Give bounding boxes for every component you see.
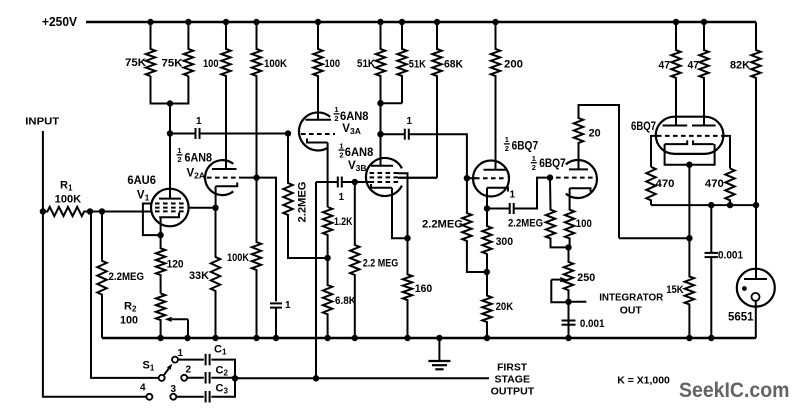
svg-text:6AN8: 6AN8: [345, 147, 374, 159]
resistor 160: [403, 238, 412, 338]
tube U3 half-6BQ7 first envelope: [473, 161, 509, 197]
wire first stage output: [235, 377, 489, 379]
junction dot V3A grid node: [285, 130, 291, 136]
tube V1 cathode: [159, 213, 179, 218]
resistor 6.8K: [323, 258, 332, 338]
junction dot: [708, 202, 714, 208]
junction dot: [404, 235, 410, 241]
label 51K: [357, 58, 375, 70]
resistor 100K (lower): [252, 178, 261, 338]
junction dot ground: [324, 335, 330, 341]
svg-text:1: 1: [407, 116, 413, 127]
svg-text:6BQ7: 6BQ7: [539, 156, 566, 170]
junction dot ground: [484, 335, 490, 341]
svg-text:6BQ7: 6BQ7: [512, 139, 539, 153]
wire V1 grid2 bracket: [143, 204, 161, 236]
label S1: [143, 360, 155, 373]
label 200: [504, 59, 523, 71]
resistor 100K (upper): [252, 22, 261, 178]
svg-text:INPUT: INPUT: [25, 117, 59, 128]
svg-text:2: 2: [334, 114, 338, 123]
junction dot: [727, 202, 733, 208]
wire coupling cap to V3B grid: [342, 181, 370, 183]
label R2: [124, 301, 137, 314]
junction dot: [324, 255, 330, 261]
junction dot ground: [184, 335, 190, 341]
label OUT: [620, 304, 643, 316]
capacitor 1 (integrator coupling): [510, 203, 514, 214]
tube V3B grid row 1: [370, 172, 399, 174]
label STAGE: [495, 374, 531, 386]
label 47: [688, 60, 700, 72]
label 100K (R1): [55, 193, 82, 205]
label 4 (contact): [140, 383, 146, 394]
svg-text:1: 1: [285, 300, 291, 311]
label 100: [325, 58, 341, 70]
capacitor 0.001 (integrator): [562, 321, 576, 325]
label 1/2 fraction (V3A): [334, 105, 340, 123]
junction dot: [223, 19, 229, 25]
node +250V supply rail: [86, 21, 756, 23]
label 3 (contact): [171, 384, 177, 395]
svg-text:2: 2: [532, 163, 536, 172]
resistor 15K: [685, 238, 694, 338]
resistor 100 (6BQ7 cathode): [565, 188, 574, 247]
wire V3A cathode lead: [327, 143, 329, 208]
resistor 68K: [432, 22, 441, 178]
svg-text:3: 3: [171, 384, 177, 395]
resistor 47 (second): [699, 22, 708, 126]
resistor 2.2MEG (V3B grid): [350, 182, 359, 338]
tube V2A cathode: [216, 183, 238, 187]
label 6AN8 (V3B): [345, 147, 374, 159]
label INTEGRATOR: [599, 292, 663, 304]
svg-text:100: 100: [576, 218, 592, 230]
svg-text:2.2MEG: 2.2MEG: [109, 271, 145, 283]
wire cathode to coupling cap: [487, 208, 510, 210]
svg-text:51K: 51K: [409, 59, 426, 71]
label 100K: [264, 58, 287, 70]
svg-text:100K: 100K: [264, 58, 287, 70]
label 2.2MEG (6BQ7 grid): [422, 219, 463, 231]
junction dot: [484, 205, 490, 211]
label 82K: [730, 60, 750, 72]
wire V1 output lead: [189, 207, 216, 209]
label 2.2MEG (rotated): [297, 182, 309, 223]
label C3: [216, 383, 229, 396]
svg-text:1.2K: 1.2K: [334, 216, 353, 228]
label 470 (left): [656, 178, 675, 190]
wire 75K pair bottom bracket: [151, 76, 189, 104]
svg-text:160: 160: [415, 283, 433, 295]
junction dot: [753, 202, 759, 208]
svg-text:OUTPUT: OUTPUT: [491, 386, 535, 398]
label K = X1,000: [617, 375, 670, 387]
tube 6BQ7-1 cathode: [487, 188, 508, 192]
label 33K: [189, 270, 209, 282]
svg-text:100K: 100K: [55, 193, 82, 205]
junction dot ground: [212, 335, 218, 341]
svg-text:2: 2: [177, 155, 181, 164]
svg-text:6AU6: 6AU6: [127, 175, 155, 187]
resistor 1.2K: [323, 207, 332, 258]
label 20K: [496, 301, 514, 313]
junction dot ground: [436, 335, 442, 341]
svg-text:100K: 100K: [227, 252, 249, 264]
svg-text:1: 1: [339, 141, 343, 150]
potentiometer R2 100: [156, 293, 165, 338]
svg-text:470: 470: [656, 178, 675, 190]
label 6BQ7 (output): [631, 119, 656, 133]
svg-text:2: 2: [505, 144, 509, 153]
svg-text:75K: 75K: [162, 58, 183, 70]
resistor 120: [156, 235, 165, 293]
wire 75K junction to V1 plate: [169, 104, 171, 199]
junction dot first stage tap: [313, 375, 319, 381]
wire V3B plate to coupling cap: [381, 133, 405, 135]
ground symbol: [428, 338, 450, 369]
capacitor 0.001 (output): [705, 253, 719, 257]
wire coupling cap to 6BQ7 grid: [409, 134, 467, 178]
junction dot cathode node: [157, 232, 163, 238]
junction dot: [99, 208, 105, 214]
capacitor 1 (V3A cathode coupling): [338, 177, 342, 188]
junction dot input/R1: [40, 208, 46, 214]
switch S1 contact 3: [170, 394, 176, 400]
tube V1 grid row 1: [155, 203, 185, 205]
resistor 200: [491, 22, 500, 170]
wire integrator out tap: [569, 301, 587, 303]
capacitor C2: [206, 372, 210, 384]
svg-text:68K: 68K: [444, 59, 463, 71]
tube V3A grid: [301, 133, 335, 135]
svg-text:2.2MEG: 2.2MEG: [508, 218, 543, 230]
wire 20 branch to cathode node: [619, 237, 689, 239]
svg-text:1: 1: [334, 105, 338, 114]
svg-text:1: 1: [510, 189, 516, 200]
capacitor C3: [206, 391, 210, 403]
junction dot: [377, 131, 383, 137]
switch S1 contact 4: [146, 394, 152, 400]
node ground rail: [102, 337, 756, 339]
svg-text:+250V: +250V: [42, 15, 78, 29]
switch S1 contact 1: [172, 357, 178, 363]
svg-text:6AN8: 6AN8: [185, 153, 213, 165]
svg-text:250: 250: [577, 272, 595, 284]
junction dot: [253, 19, 259, 25]
label 1 (V3B plate coupling): [407, 116, 413, 127]
svg-text:82K: 82K: [730, 60, 750, 72]
label 2.2 MEG (V3B grid): [363, 258, 399, 270]
tube 6BQ7-1 plate: [484, 169, 507, 171]
resistor 2.2MEG (6BQ7 grid): [462, 178, 487, 272]
wire V1 cathode lead: [160, 217, 162, 235]
junction dot 6BQ7-2 grid node: [547, 174, 553, 180]
label SeekIC.com watermark: [679, 379, 790, 402]
label INPUT: [25, 117, 59, 128]
svg-text:15K: 15K: [666, 284, 684, 296]
junction dot: [673, 19, 679, 25]
tube V4 6BQ7 envelope: [656, 117, 724, 154]
wire first-stage-output drop: [315, 182, 317, 378]
junction dot: [147, 19, 153, 25]
label 1 (contact): [178, 348, 184, 359]
resistor 100 (V3A plate): [313, 22, 322, 120]
tube V3B grid row 2: [370, 176, 399, 178]
junction dot: [167, 100, 173, 106]
label 75K: [125, 57, 146, 69]
label 6AN8 (V3A): [340, 111, 369, 123]
resistor 82K: [751, 22, 760, 205]
tube 5651 anode: [744, 278, 767, 280]
label 100 (R2): [120, 315, 138, 327]
wire contact2 to C2: [187, 377, 204, 379]
tube V3B 6AN8 envelope: [366, 158, 402, 196]
tube V3B grid row 3: [370, 181, 399, 183]
svg-text:200: 200: [504, 59, 523, 71]
capacitor C1: [206, 354, 210, 366]
svg-text:6AN8: 6AN8: [340, 111, 369, 123]
tube 6BQ7-2 plate: [569, 168, 588, 170]
svg-text:75K: 75K: [125, 57, 146, 69]
tube V2A plate: [212, 168, 237, 170]
svg-text:4: 4: [140, 383, 146, 394]
wire R2 wiper: [165, 317, 188, 338]
resistor 75K (first): [146, 22, 155, 76]
label 0.001 (integrator): [580, 318, 605, 330]
junction dot: [167, 130, 173, 136]
junction dot: [185, 19, 191, 25]
label 6BQ7 (second): [539, 156, 566, 170]
tube V2A grid: [207, 177, 240, 179]
wire coupling cap to 6BQ7-2 grid: [514, 178, 550, 209]
wire 5651 bottom lead: [755, 301, 757, 338]
resistor 470 (left): [646, 167, 655, 205]
tube 5651 starter dot: [742, 286, 747, 291]
resistor 47 (first): [671, 22, 680, 126]
tube V1 grid row 3: [155, 210, 185, 212]
wire C2 to output bus: [211, 377, 235, 379]
wire 68K to V3B screen grid: [400, 177, 438, 179]
wire output cap to ground: [710, 257, 712, 338]
junction dot: [686, 235, 692, 241]
junction dot: [399, 19, 405, 25]
junction dot ground: [686, 335, 692, 341]
junction dot: [253, 174, 259, 180]
resistor 2.2MEG (integrator): [546, 178, 569, 248]
wire R1 to V1 grid: [90, 211, 152, 213]
junction dot cap bank: [232, 375, 238, 381]
wire V1 plate to C coupling: [170, 133, 196, 135]
svg-text:33K: 33K: [189, 270, 209, 282]
svg-text:2: 2: [339, 150, 343, 159]
wire cathode to 15K: [688, 165, 690, 239]
svg-text:100: 100: [203, 58, 219, 70]
resistor 33K: [211, 208, 220, 338]
label 2 (contact): [186, 365, 192, 376]
junction dot ground: [352, 335, 358, 341]
junction dot: [701, 19, 707, 25]
wire 5651 top lead: [755, 205, 757, 279]
wire V2A grid to 100K node: [240, 177, 257, 179]
svg-text:0.001: 0.001: [580, 318, 605, 330]
label V2A: [187, 168, 206, 181]
wire contact3 to C3: [176, 396, 204, 398]
junction dot ground: [708, 335, 714, 341]
resistor 2.2MEG (V3A grid): [283, 134, 328, 259]
label 6AU6: [127, 175, 155, 187]
label 5651: [728, 312, 754, 324]
tube V5 5651 envelope: [737, 269, 775, 307]
label 1/2 fraction (V2A): [177, 146, 183, 164]
wire C3 to output bus: [211, 378, 235, 396]
resistor 20: [574, 105, 619, 238]
resistor 51K (first): [376, 22, 385, 103]
wire V4 plate B lead: [703, 78, 705, 126]
resistor 470 (right): [725, 169, 734, 206]
svg-text:120: 120: [167, 259, 184, 271]
wire grid node into tube: [467, 177, 476, 179]
svg-text:100: 100: [120, 315, 138, 327]
tube V1 plate: [159, 198, 181, 200]
label 1 (bypass): [285, 300, 291, 311]
label 20: [589, 128, 601, 140]
wire grid node to S1 common: [91, 212, 159, 378]
label C2: [216, 364, 229, 377]
capacitor 1 (cathode bypass): [270, 303, 282, 307]
junction dot ground: [565, 335, 571, 341]
resistor 20K: [482, 272, 491, 338]
junction dot ground: [157, 335, 163, 341]
svg-text:51K: 51K: [357, 58, 375, 70]
potentiometer 250: [564, 247, 573, 338]
label 120: [167, 259, 184, 271]
svg-text:K = X1,000: K = X1,000: [617, 375, 670, 387]
svg-text:STAGE: STAGE: [495, 374, 531, 386]
svg-text:6BQ7: 6BQ7: [631, 119, 656, 133]
capacitor 1 (V1 plate coupling): [196, 128, 200, 139]
label 2.2MEG (integrator): [508, 218, 543, 230]
svg-text:FIRST: FIRST: [497, 362, 528, 374]
svg-text:2: 2: [186, 365, 192, 376]
label 0.001 (output): [718, 250, 743, 262]
svg-text:47: 47: [659, 60, 671, 72]
wire C1 to output bus: [211, 360, 235, 379]
junction dot: [377, 100, 383, 106]
tube V4 plate B: [692, 125, 716, 127]
resistor 75K (second): [184, 22, 193, 76]
junction dot cathode center: [686, 162, 692, 168]
svg-text:0.001: 0.001: [718, 250, 743, 262]
svg-text:1: 1: [505, 135, 509, 144]
wire contact1 to C1: [178, 359, 204, 361]
resistor 51K (second): [397, 22, 406, 103]
junction dot: [492, 19, 498, 25]
junction dot: [212, 205, 218, 211]
svg-text:2.2 MEG: 2.2 MEG: [363, 258, 399, 270]
tube 6BQ7-1 grid: [475, 177, 507, 179]
label 160: [415, 283, 433, 295]
wire V3B screen lead: [398, 177, 437, 179]
tube V1 6AU6 envelope: [151, 189, 189, 227]
svg-text:2.2MEG: 2.2MEG: [297, 182, 309, 223]
tube V2A 6AN8 envelope: [205, 160, 233, 195]
label V3A: [342, 123, 361, 136]
tube 5651 cathode circle: [752, 293, 760, 301]
svg-text:20: 20: [589, 128, 601, 140]
tube V3A plate: [306, 119, 332, 121]
label C1: [214, 344, 227, 357]
wire output cap top lead: [710, 205, 712, 253]
svg-text:INTEGRATOR: INTEGRATOR: [599, 292, 663, 304]
svg-text:470: 470: [705, 178, 724, 190]
label 1 (integrator coupling): [510, 189, 516, 200]
label 1/2 fraction (V3B): [339, 141, 345, 159]
label 68K: [444, 59, 463, 71]
svg-text:1: 1: [196, 116, 202, 127]
label 470 (right): [705, 178, 724, 190]
label 1 (V3A coupling): [339, 192, 345, 203]
wire V3B suppressor lead: [398, 173, 408, 238]
label 15K: [666, 284, 684, 296]
junction dot: [87, 208, 93, 214]
svg-text:100: 100: [325, 58, 341, 70]
wire V3B cathode lead: [392, 188, 408, 238]
svg-text:SeekIC.com: SeekIC.com: [679, 379, 790, 402]
svg-text:1: 1: [178, 348, 184, 359]
switch S1 contact 2: [181, 375, 187, 381]
wire 250 wiper: [551, 277, 568, 302]
svg-text:1: 1: [339, 192, 345, 203]
resistor 100 (V2A plate): [221, 22, 230, 169]
label V3B: [348, 160, 367, 173]
tube V3B plate: [371, 165, 393, 167]
wire V2A plate lead: [225, 76, 227, 169]
svg-text:300: 300: [496, 236, 513, 248]
tube V4 cathode A: [665, 140, 688, 144]
label OUTPUT: [491, 386, 535, 398]
tube V4 grid: [657, 135, 723, 137]
label 6.8K: [335, 295, 356, 307]
wire V4 plate A lead: [675, 78, 677, 126]
label 100 (6BQ7 cathode): [576, 218, 592, 230]
wire V4 cathode bus: [665, 144, 715, 165]
tube 6BQ7-2 grid: [556, 177, 596, 179]
tube 6BQ7-2 cathode: [570, 188, 591, 191]
junction dot: [565, 299, 571, 305]
tube U4 half-6BQ7 second envelope: [566, 160, 597, 198]
svg-text:20K: 20K: [496, 301, 514, 313]
svg-text:OUT: OUT: [620, 304, 643, 316]
wire bypass cap to ground: [275, 308, 277, 338]
wire input vertical: [43, 131, 146, 397]
label V1: [137, 190, 150, 203]
tube V3B cathode: [371, 184, 392, 188]
junction dot: [484, 269, 490, 275]
label 75K: [162, 58, 183, 70]
switch S1 common contact: [159, 375, 165, 381]
label R1: [60, 180, 73, 193]
junction dot: [377, 19, 383, 25]
tube V4 plate A: [663, 125, 688, 127]
label 1/2 fraction (6BQ7 first): [504, 135, 510, 153]
wire 51K junction to V3B plate: [380, 103, 382, 166]
tube V4 cathode B: [693, 140, 714, 144]
capacitor 1 (V3B plate coupling): [405, 129, 409, 140]
wire V4 grid right lead: [723, 136, 731, 169]
junction dot ground: [404, 335, 410, 341]
tube V3A 6AN8 envelope: [299, 112, 330, 150]
